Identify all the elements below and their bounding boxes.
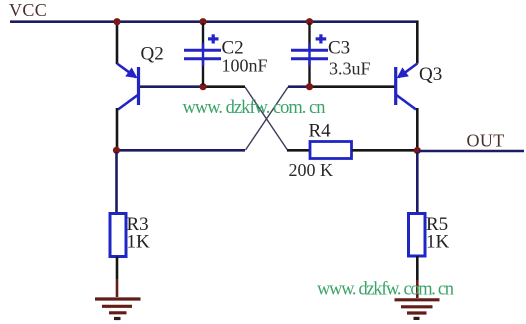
wire cross to R4 left <box>287 149 310 152</box>
resistor R3 <box>110 214 126 257</box>
resistor R5 <box>409 214 426 257</box>
wire Q2 base row <box>140 85 204 88</box>
wire VCC to Q2 emitter <box>116 22 119 64</box>
svg-text:100nF: 100nF <box>222 56 268 76</box>
capacitor C3 <box>291 23 328 85</box>
wire Q3 base row <box>288 85 310 88</box>
svg-text:Q3: Q3 <box>419 64 442 85</box>
wire R4 right to OUT node <box>352 149 418 152</box>
junction dot C2 bottom <box>199 83 206 90</box>
svg-text:3.3uF: 3.3uF <box>329 59 371 79</box>
svg-text:VCC: VCC <box>9 0 47 20</box>
wire VCC corner down to Q3 emitter <box>416 21 419 64</box>
svg-text:www. dzkfw. com. cn: www. dzkfw. com. cn <box>317 280 454 300</box>
svg-text:1K: 1K <box>127 232 151 253</box>
wire Q2 collector down <box>116 108 119 150</box>
svg-text:1K: 1K <box>426 232 450 253</box>
wire VCC rail <box>10 20 418 23</box>
svg-text:Q2: Q2 <box>141 44 164 65</box>
junction dot C3 bottom <box>306 83 313 90</box>
wire R5 to ground <box>416 256 419 280</box>
svg-text:200 K: 200 K <box>289 160 334 180</box>
wire Q2 collector row <box>117 149 246 152</box>
cross-coupling wire Q2 base to R4 <box>245 87 288 150</box>
resistor R4 <box>310 142 352 159</box>
cross-coupling wire Q3 base to Q2 collector <box>246 87 289 150</box>
svg-text:C3: C3 <box>328 38 350 59</box>
transistor Q2 <box>117 64 139 110</box>
svg-text:www. dzkfw. com. cn: www. dzkfw. com. cn <box>183 98 326 118</box>
junction dot VCC/C2 <box>199 18 206 25</box>
junction dot VCC/Q2 <box>113 18 120 25</box>
wire R3 to ground <box>116 257 119 280</box>
ground right <box>395 300 440 319</box>
svg-text:R4: R4 <box>309 121 332 142</box>
wire OUT node down to R5 <box>416 152 419 214</box>
wire OUT <box>419 150 524 153</box>
wire left column to R3 <box>115 152 118 214</box>
junction dot Q2 collector node <box>113 147 120 154</box>
svg-text:OUT: OUT <box>467 130 505 150</box>
ground left <box>95 299 141 319</box>
junction dot VCC/C3 <box>306 18 313 25</box>
wire Q3 collector down <box>416 108 419 150</box>
junction dot OUT node <box>414 147 421 154</box>
capacitor C2 <box>184 23 221 85</box>
transistor Q3 <box>396 64 418 110</box>
